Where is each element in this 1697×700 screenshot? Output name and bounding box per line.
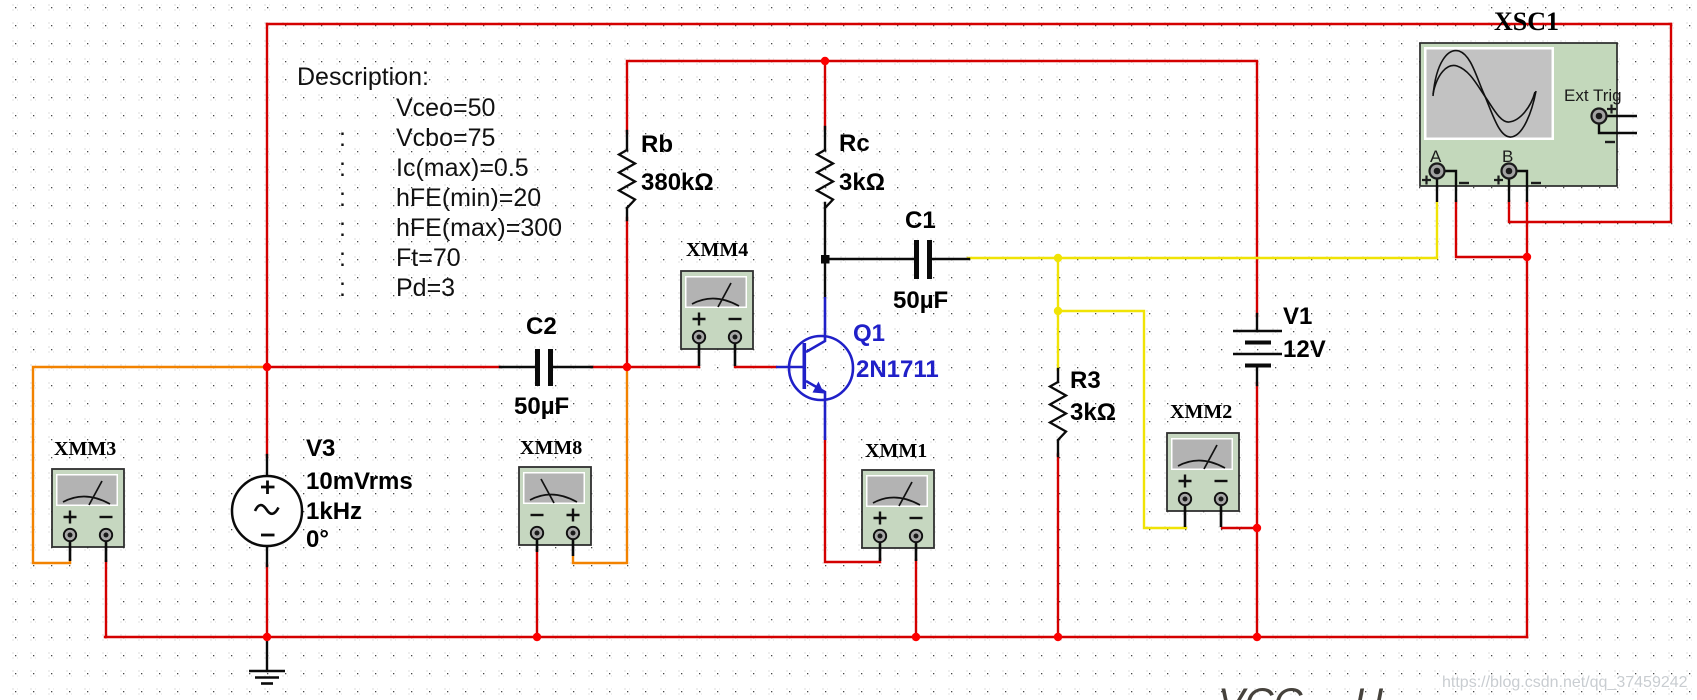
resistor Rc bbox=[817, 150, 833, 208]
wire: yellow from lower node to XMM2 plus bbox=[1058, 311, 1186, 528]
svg-text:C2: C2 bbox=[526, 313, 557, 340]
svg-text:XMM4: XMM4 bbox=[686, 239, 748, 261]
svg-text:VCC: VCC bbox=[1218, 681, 1304, 700]
svg-text:C1: C1 bbox=[905, 207, 936, 234]
svg-text:50µF: 50µF bbox=[514, 393, 569, 420]
svg-text:Ext Trig: Ext Trig bbox=[1564, 86, 1622, 105]
wire: red from input node to C2 left stub bbox=[267, 366, 500, 368]
svg-text:V3: V3 bbox=[306, 435, 335, 462]
svg-text:V1: V1 bbox=[1283, 303, 1312, 330]
svg-text:hFE(min)=20: hFE(min)=20 bbox=[396, 184, 541, 212]
svg-text:2N1711: 2N1711 bbox=[856, 356, 939, 383]
wire: black V1 stubs bbox=[1256, 314, 1258, 331]
description text block bbox=[297, 63, 562, 302]
oscilloscope XSC1 bbox=[1420, 43, 1637, 202]
wire: black C2 stubs bbox=[500, 366, 536, 368]
battery V1 bbox=[1233, 331, 1282, 366]
node: junction Rc top on VCC rail bbox=[821, 57, 829, 65]
wire: black collector node to C1 left plate bbox=[825, 258, 915, 260]
node: junction V1 bottom on ground rail bbox=[1253, 633, 1261, 641]
wire: yellow drop from output line to lower node bbox=[1057, 258, 1059, 311]
svg-text:Ic(max)=0.5: Ic(max)=0.5 bbox=[396, 154, 529, 182]
wire: red from base node to XMM4 plus stub bbox=[627, 366, 699, 368]
svg-text::: : bbox=[339, 124, 346, 152]
multimeter XMM3 bbox=[52, 469, 124, 562]
wire: yellow from lower node down to R3 top bbox=[1057, 311, 1059, 370]
svg-text:50µF: 50µF bbox=[893, 287, 948, 314]
wire: red bottom ground rail bbox=[105, 636, 1527, 638]
wire: red from XMM2 minus to V1 branch bbox=[1222, 527, 1257, 529]
node: junction V3 bottom on ground rail bbox=[263, 633, 271, 641]
svg-text:3kΩ: 3kΩ bbox=[1070, 399, 1116, 426]
node: junction collector black bbox=[821, 255, 830, 264]
capacitor C2 bbox=[535, 349, 540, 386]
svg-text:Description:: Description: bbox=[297, 63, 429, 91]
wire: black R3 stubs bbox=[1057, 369, 1059, 382]
node: junction scope A minus / B minus bbox=[1523, 253, 1531, 261]
svg-text:Rc: Rc bbox=[839, 130, 870, 157]
node: junction XMM2 minus on V1 branch bbox=[1253, 524, 1261, 532]
node: junction R3 bottom on ground rail bbox=[1054, 633, 1062, 641]
capacitor C1 bbox=[914, 240, 919, 279]
wire: red from XMM8 minus to bottom rail bbox=[536, 550, 538, 637]
node: junction XMM8 minus on ground rail bbox=[533, 633, 541, 641]
node: junction XMM1 minus on ground rail bbox=[912, 633, 920, 641]
svg-text::: : bbox=[339, 244, 346, 272]
svg-text:U: U bbox=[1354, 681, 1384, 700]
svg-text:Ft=70: Ft=70 bbox=[396, 244, 461, 272]
wire: yellow output line from C1 to scope A plus bbox=[968, 202, 1437, 258]
wire: black ground stub below bottom rail bbox=[266, 637, 268, 671]
node: junction yellow lower bbox=[1054, 307, 1062, 315]
svg-text:hFE(max)=300: hFE(max)=300 bbox=[396, 214, 562, 242]
svg-text:10mVrms: 10mVrms bbox=[306, 468, 413, 495]
svg-text:XMM1: XMM1 bbox=[865, 440, 927, 462]
svg-text:12V: 12V bbox=[1283, 336, 1326, 363]
svg-text::: : bbox=[339, 154, 346, 182]
svg-text:Vcbo=75: Vcbo=75 bbox=[396, 124, 495, 152]
wire: red from Q1 emitter to XMM1 plus bbox=[825, 439, 880, 562]
wire: black Rb stubs bbox=[626, 131, 628, 150]
ground bbox=[249, 671, 285, 684]
node: junction input at V3/C2/XMM3 bbox=[263, 363, 271, 371]
wire: red from XMM4 minus stub to Q1 base lead bbox=[735, 366, 776, 368]
multimeter XMM4 bbox=[681, 271, 753, 366]
svg-text::: : bbox=[339, 274, 346, 302]
svg-text::: : bbox=[339, 214, 346, 242]
wire: red segment A minus down and right to node bbox=[1456, 201, 1527, 257]
resistor R3 bbox=[1050, 382, 1066, 440]
wire: black V3 stubs bbox=[266, 455, 268, 477]
wire: red Rc top drop from VCC rail bbox=[824, 61, 826, 129]
wire: red VCC rail at y61 from Rb to V1 bbox=[627, 61, 1257, 316]
wire: red segment B minus down to node bbox=[1526, 201, 1528, 257]
resistor Rb bbox=[619, 150, 635, 208]
svg-text:XMM3: XMM3 bbox=[54, 438, 116, 460]
wire: red from XMM1 minus to bottom rail bbox=[915, 560, 917, 637]
svg-text:Rb: Rb bbox=[641, 131, 673, 158]
node: junction yellow output bbox=[1054, 254, 1062, 262]
wire: orange from XMM3 plus to input node bbox=[33, 367, 267, 563]
svg-text:Vceo=50: Vceo=50 bbox=[396, 94, 495, 122]
wire: red below V3 to bottom rail bbox=[266, 565, 268, 637]
wire: right-edge red drop to scope B channel bbox=[1509, 24, 1671, 222]
svg-text:1kHz: 1kHz bbox=[306, 498, 362, 525]
wire: red from C2 right stub to base node bbox=[591, 366, 627, 368]
wire: black Rc top stub bbox=[824, 127, 826, 150]
svg-text:0°: 0° bbox=[306, 526, 329, 553]
svg-text:XSC1: XSC1 bbox=[1494, 7, 1559, 36]
svg-text::: : bbox=[339, 184, 346, 212]
svg-text:Q1: Q1 bbox=[853, 320, 885, 347]
svg-text:XMM8: XMM8 bbox=[520, 437, 582, 459]
wire: red below R3 to bottom rail bbox=[1057, 454, 1059, 637]
wire: top red rail from V3 node to scope right side bbox=[267, 23, 1671, 25]
wire: red drop from XMM3 minus to bottom rail bbox=[105, 561, 107, 637]
node: junction base node C2/Rb/XMM4/XMM8 bbox=[623, 363, 631, 371]
svg-text:XMM2: XMM2 bbox=[1170, 401, 1232, 423]
svg-text:https://blog.csdn.net/qq_37459: https://blog.csdn.net/qq_37459242 bbox=[1442, 674, 1688, 691]
wire: orange from base node down to XMM8 plus bbox=[573, 369, 627, 563]
source V3 AC bbox=[232, 476, 302, 546]
svg-text:R3: R3 bbox=[1070, 367, 1101, 394]
wire: black C1 right plate to yellow bbox=[932, 258, 969, 260]
multimeter XMM8 (mirrored) bbox=[519, 467, 591, 556]
svg-text:3kΩ: 3kΩ bbox=[839, 169, 885, 196]
wire: red vertical from top rail to V3 plus bbox=[266, 24, 268, 457]
transistor Q1 2N1711 bbox=[776, 297, 853, 440]
multimeter XMM2 bbox=[1167, 433, 1239, 527]
svg-text:Pd=3: Pd=3 bbox=[396, 274, 455, 302]
wire: red from Rb bottom to base node bbox=[626, 218, 628, 367]
wire: black Rc bottom through collector node bbox=[824, 203, 826, 297]
wire: red right vertical down to bottom rail bbox=[1526, 257, 1528, 637]
svg-text:380kΩ: 380kΩ bbox=[641, 169, 714, 196]
multimeter XMM1 bbox=[862, 470, 934, 561]
wire: red below V1 battery to bottom rail bbox=[1256, 383, 1258, 637]
